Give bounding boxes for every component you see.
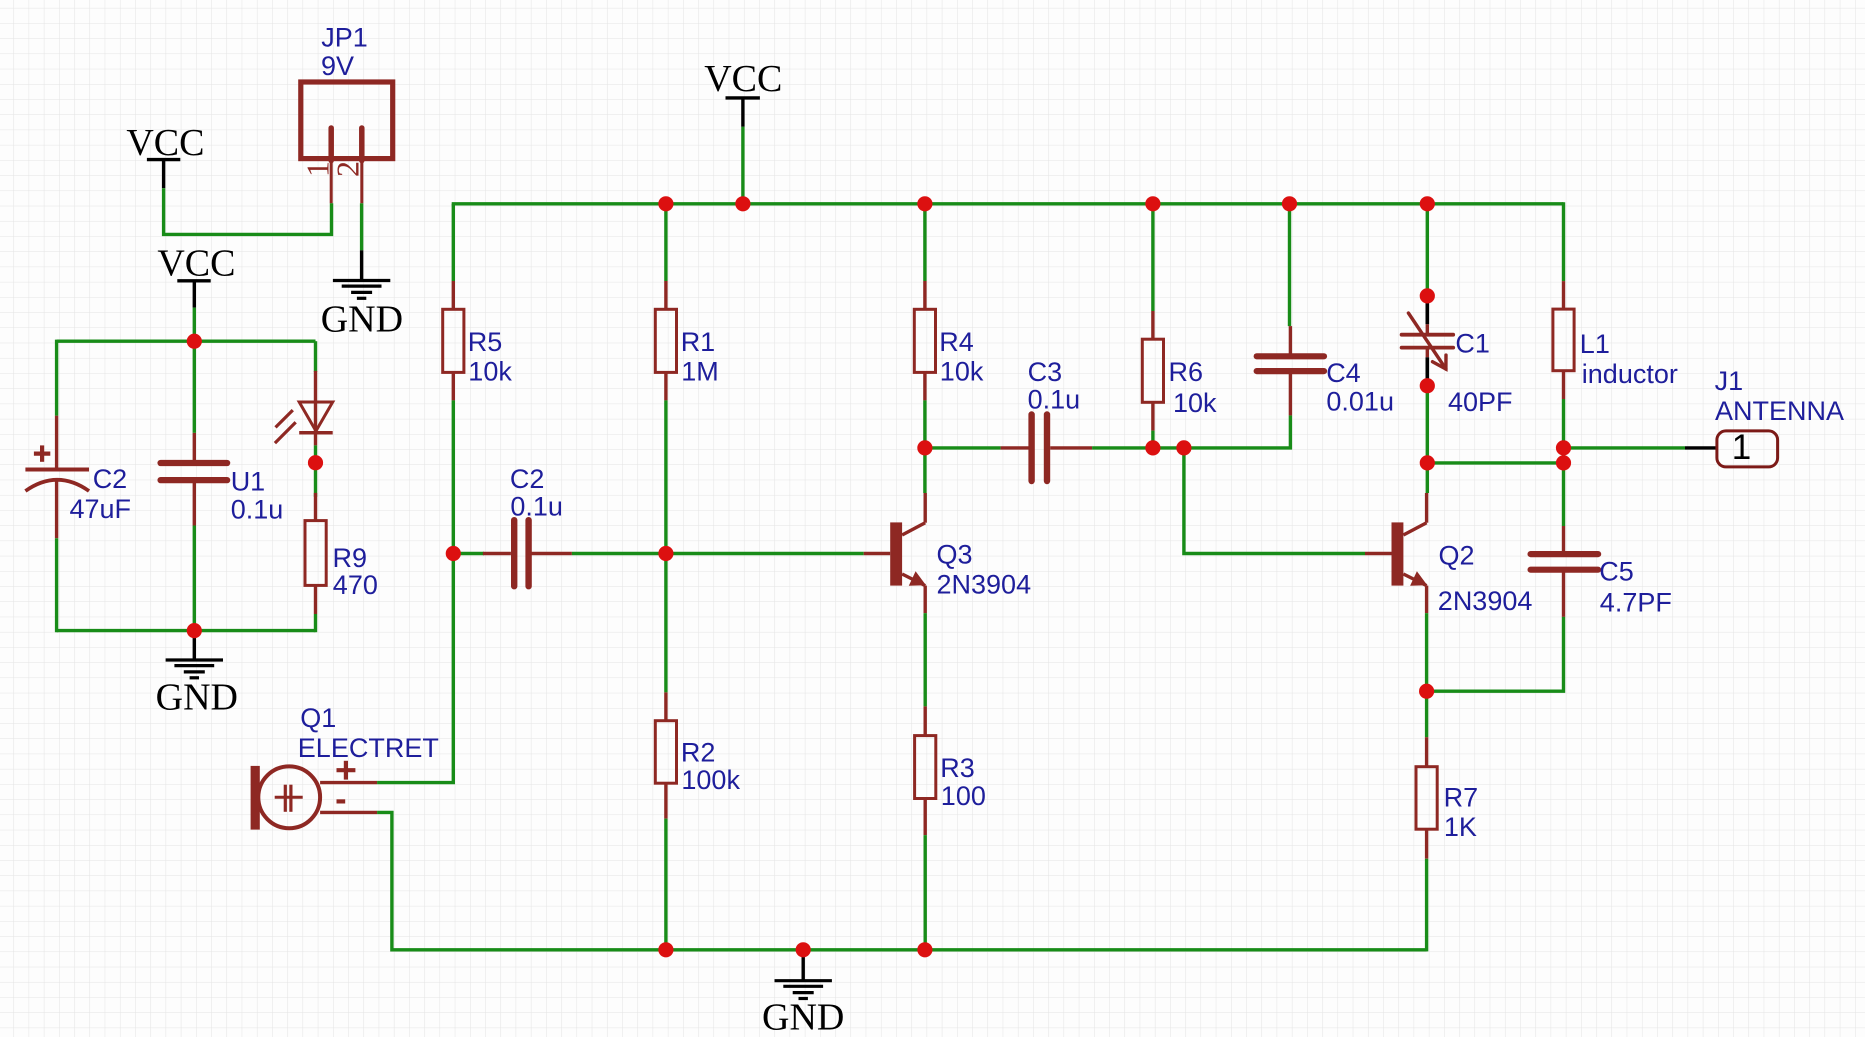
wire antenna node to C5: [1562, 463, 1565, 526]
junction bus R1: [658, 196, 673, 211]
junction R4 collector C3: [917, 440, 932, 455]
ground symbol GND (below JP1): [321, 250, 403, 340]
junction C3 R6: [1145, 440, 1160, 455]
svg-text:10k: 10k: [468, 356, 512, 386]
wire VCC bus: [452, 202, 1564, 205]
svg-text:GND: GND: [321, 299, 403, 341]
wire L1 bottom to antenna node: [1562, 399, 1565, 463]
svg-text:R1: R1: [681, 327, 716, 357]
capacitor C2 47uF (polarized electrolytic): [25, 416, 131, 539]
wire R4 bottom to collector node: [923, 400, 926, 493]
wire U1 top lead: [193, 341, 196, 433]
svg-text:VCC: VCC: [704, 58, 782, 100]
wire collector node to Q2: [1426, 463, 1429, 493]
supply symbol VCC (top left): [126, 122, 204, 188]
inductor L1: [1553, 281, 1678, 399]
svg-text:VCC: VCC: [157, 243, 235, 285]
svg-text:R6: R6: [1169, 357, 1204, 387]
wire emitter node to R7: [1425, 691, 1428, 737]
wire R7 bottom to rail corner: [1425, 859, 1428, 952]
junction LED R9: [308, 455, 323, 470]
junction rail GND: [796, 942, 811, 957]
wire left block bottom rail: [57, 629, 316, 632]
junction C1 bottom: [1420, 378, 1435, 393]
capacitor C4 0.01u: [1257, 326, 1394, 416]
capacitor C5 4.7PF: [1531, 526, 1672, 618]
wire VCC to JP1 pin 1: [164, 188, 332, 234]
svg-text:ELECTRET: ELECTRET: [298, 733, 439, 763]
resistor R5 10k: [443, 281, 513, 400]
svg-text:R4: R4: [939, 327, 974, 357]
resistor R9 470: [305, 493, 378, 614]
svg-text:10k: 10k: [1173, 388, 1217, 418]
resistor R4 10k: [914, 281, 984, 400]
svg-text:1: 1: [1732, 428, 1751, 467]
wire bus right corner down to L1: [1562, 202, 1565, 281]
wire bus drop to R6: [1151, 204, 1154, 311]
svg-text:R3: R3: [940, 753, 975, 783]
junction bus VCC: [735, 196, 750, 211]
wire Q3 emitter to R3: [924, 613, 927, 706]
svg-text:C1: C1: [1455, 328, 1490, 358]
capacitor U1 0.1u: [161, 433, 284, 526]
svg-text:R9: R9: [333, 543, 368, 573]
svg-text:L1: L1: [1580, 329, 1610, 359]
wire antenna line: [1564, 446, 1686, 449]
svg-text:C2: C2: [510, 464, 545, 494]
connector JP1 (9V battery header): [301, 22, 393, 158]
svg-text:4.7PF: 4.7PF: [1600, 588, 1672, 618]
svg-text:1K: 1K: [1444, 812, 1477, 842]
svg-text:inductor: inductor: [1582, 359, 1678, 389]
wire R2 bottom to rail: [664, 819, 667, 950]
transistor Q3 2N3904: [864, 493, 1031, 613]
resistor R7 1K: [1416, 737, 1478, 859]
wire R5 bottom to mic node: [452, 400, 455, 553]
wire bus drop to R1: [664, 204, 667, 281]
wire C5 bottom to emitter node: [1427, 617, 1564, 691]
svg-text:GND: GND: [762, 996, 844, 1037]
junction GND left block: [187, 623, 202, 638]
svg-text:0.01u: 0.01u: [1326, 386, 1394, 416]
wire collector node to C3: [925, 446, 1001, 449]
wire node to C4 bottom corner: [1184, 415, 1291, 448]
wire R9 bottom: [314, 614, 317, 632]
svg-text:Q2: Q2: [1439, 540, 1475, 570]
svg-text:47uF: 47uF: [70, 494, 132, 524]
junction Q2 emitter C5: [1419, 684, 1434, 699]
wire Q2 base riser: [1184, 448, 1365, 554]
svg-text:100: 100: [941, 781, 986, 811]
pin of J1: [1685, 446, 1717, 449]
wire Q2 emitter to node: [1425, 613, 1428, 691]
resistor R3 100: [915, 706, 986, 835]
LED D1 (photo diode): [275, 371, 333, 446]
resistor R1 1M: [655, 281, 718, 400]
junction bus C1: [1420, 196, 1435, 211]
junction R1 R2 base: [658, 546, 673, 561]
resistor R6 10k: [1142, 311, 1217, 431]
svg-text:C3: C3: [1028, 357, 1063, 387]
junction L1 C5 row: [1556, 455, 1571, 470]
svg-text:C4: C4: [1326, 358, 1361, 388]
svg-text:2N3904: 2N3904: [937, 570, 1032, 600]
svg-text:0.1u: 0.1u: [1028, 385, 1081, 415]
supply symbol VCC (left block): [157, 243, 235, 308]
junction bus R6: [1145, 196, 1160, 211]
svg-text:Q3: Q3: [937, 540, 973, 570]
wire bus left drop to R5: [452, 204, 455, 281]
connector J1 ANTENNA: [1715, 366, 1844, 467]
svg-text:U1: U1: [231, 466, 266, 496]
svg-text:R7: R7: [1444, 783, 1479, 813]
wire C1 bottom to collector node: [1426, 386, 1429, 463]
ground symbol GND (bottom center): [762, 950, 844, 1037]
svg-text:2: 2: [330, 161, 366, 177]
junction VCC left block: [187, 334, 202, 349]
svg-text:R5: R5: [468, 327, 503, 357]
resistor R2 100k: [655, 692, 740, 818]
capacitor C1 40PF (variable trimmer): [1402, 296, 1513, 417]
wire R5/mic node to C2: [453, 552, 484, 555]
svg-text:ANTENNA: ANTENNA: [1715, 396, 1844, 426]
junction rail R3: [917, 942, 932, 957]
junction C1 top: [1420, 288, 1435, 303]
svg-text:R2: R2: [681, 738, 716, 768]
pin 1 of JP1: [328, 128, 334, 161]
wire JP1 pin 2 to GND: [360, 203, 363, 250]
transistor Q2 2N3904: [1365, 493, 1532, 616]
wire bus drop to C4: [1288, 204, 1291, 326]
wire R6 bottom to node: [1151, 431, 1154, 448]
electret microphone Q1: [251, 703, 439, 830]
svg-text:GND: GND: [156, 677, 238, 719]
wire LED top lead: [314, 341, 317, 372]
svg-text:0.1u: 0.1u: [510, 492, 563, 522]
svg-text:40PF: 40PF: [1448, 387, 1513, 417]
ground rail (bottom): [666, 948, 1427, 951]
svg-text:JP1: JP1: [321, 22, 368, 52]
wire left column upper: [55, 340, 58, 416]
svg-text:2N3904: 2N3904: [1438, 586, 1533, 616]
svg-text:Q1: Q1: [300, 703, 336, 733]
wire mic minus to ground rail: [377, 812, 667, 949]
wire LED to R9: [314, 445, 317, 497]
junction bus R4: [917, 196, 932, 211]
svg-text:VCC: VCC: [126, 122, 204, 164]
ground symbol GND (left block): [156, 631, 238, 719]
capacitor C2 0.1u (coupling): [483, 464, 572, 586]
supply symbol VCC (top center): [704, 58, 782, 127]
wire VCC stem to bus: [741, 127, 744, 204]
svg-text:J1: J1: [1715, 366, 1744, 396]
junction bus C4: [1282, 196, 1297, 211]
svg-text:9V: 9V: [321, 51, 354, 81]
junction L1 antenna: [1556, 440, 1571, 455]
wire bus drop to R4: [923, 204, 926, 281]
junction C4 Q2 base: [1176, 440, 1191, 455]
junction R5 C2 mic: [446, 546, 461, 561]
wire U1 bottom lead: [193, 526, 196, 631]
svg-text:10k: 10k: [940, 356, 984, 386]
wire C2 to R1/R2 node and Q3 base: [572, 552, 864, 555]
wire left block top rail: [57, 340, 316, 343]
wire bus drop to C1: [1426, 204, 1429, 296]
pin 2 of JP1: [359, 128, 365, 161]
junction Q2 collector: [1420, 455, 1435, 470]
svg-text:470: 470: [333, 570, 378, 600]
wire R3 bottom to rail: [924, 835, 927, 950]
wire left column lower: [55, 538, 58, 632]
svg-text:1M: 1M: [681, 356, 719, 386]
wire VCC stem to node: [193, 308, 196, 342]
capacitor C3 0.1u: [1001, 357, 1093, 481]
junction rail R2: [658, 942, 673, 957]
wire collector node to L1/C5 branch: [1427, 461, 1563, 464]
wire C3 to R6 node: [1092, 446, 1184, 449]
wire R1 bottom to node: [664, 400, 667, 692]
svg-text:0.1u: 0.1u: [231, 494, 284, 524]
svg-text:C5: C5: [1599, 556, 1634, 586]
svg-text:C2: C2: [93, 464, 128, 494]
svg-text:100k: 100k: [681, 765, 740, 795]
wire mic plus to C2 node riser: [377, 552, 453, 783]
